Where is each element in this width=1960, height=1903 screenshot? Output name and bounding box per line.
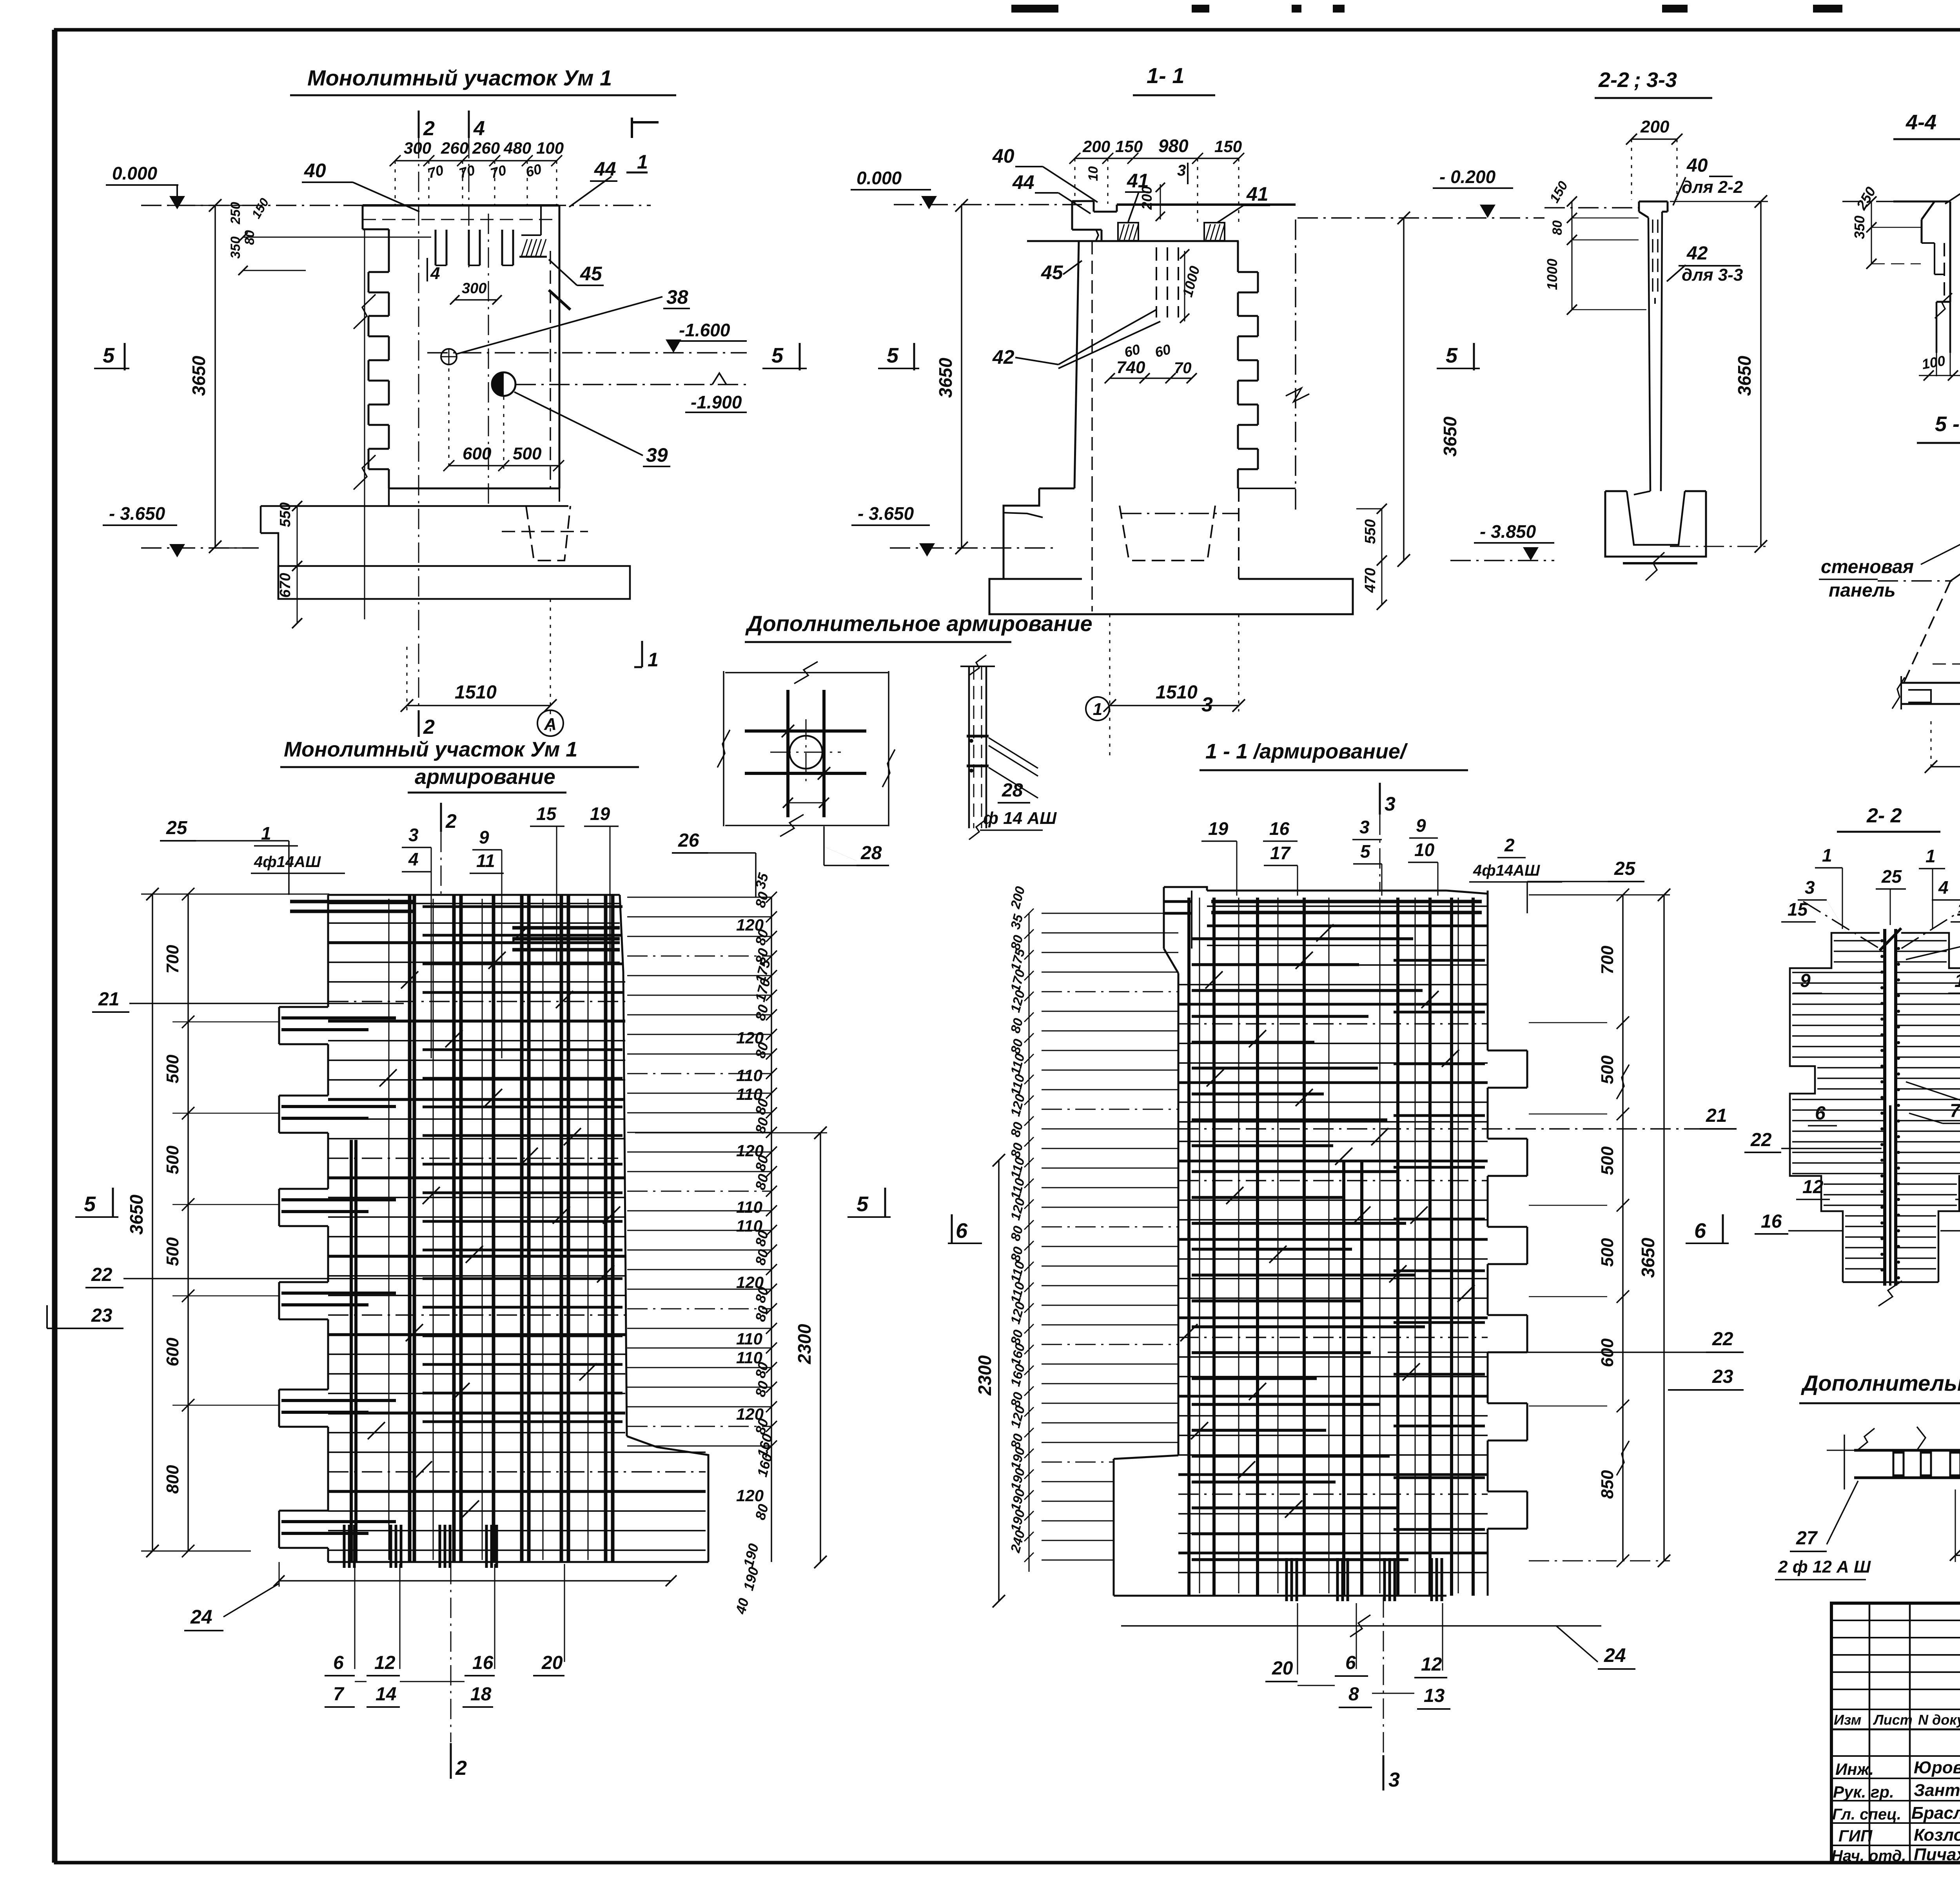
svg-text:80: 80 [1550, 220, 1565, 235]
svg-text:Гл. спец.: Гл. спец. [1832, 1806, 1901, 1823]
svg-text:12: 12 [1802, 1177, 1824, 1197]
svg-text:40: 40 [992, 145, 1014, 167]
svg-text:42: 42 [1686, 243, 1708, 264]
svg-text:3: 3 [1805, 877, 1815, 898]
svg-text:15: 15 [1957, 899, 1960, 920]
svg-text:13: 13 [1424, 1685, 1445, 1706]
svg-text:1: 1 [1926, 846, 1936, 866]
svg-text:2- 2: 2- 2 [1866, 804, 1902, 827]
svg-text:Зантверг: Зантверг [1914, 1781, 1960, 1800]
svg-text:26: 26 [678, 830, 699, 851]
svg-text:для 2-2: для 2-2 [1682, 178, 1743, 197]
svg-text:Инж.: Инж. [1835, 1760, 1874, 1778]
svg-text:1510: 1510 [455, 682, 497, 703]
svg-text:11: 11 [476, 851, 495, 871]
svg-text:Пичахчи: Пичахчи [1914, 1845, 1960, 1864]
svg-text:500: 500 [163, 1237, 182, 1266]
svg-text:550: 550 [1362, 519, 1379, 544]
svg-text:3650: 3650 [126, 1194, 147, 1235]
svg-text:150: 150 [1214, 137, 1242, 156]
svg-text:1: 1 [261, 823, 271, 844]
svg-text:3650: 3650 [935, 357, 956, 398]
svg-text:9: 9 [479, 827, 489, 847]
svg-text:16: 16 [1761, 1211, 1782, 1232]
svg-text:1- 1: 1- 1 [1147, 63, 1185, 88]
svg-text:А: А [544, 715, 557, 734]
svg-text:6: 6 [333, 1653, 344, 1673]
svg-text:4: 4 [430, 264, 440, 283]
svg-text:5: 5 [1360, 841, 1371, 862]
svg-text:ф 14 АШ: ф 14 АШ [983, 809, 1057, 828]
svg-text:4: 4 [408, 849, 419, 869]
svg-text:600: 600 [463, 444, 492, 463]
svg-text:для 3-3: для 3-3 [1682, 265, 1743, 285]
svg-text:24: 24 [1604, 1644, 1626, 1666]
svg-text:0.000: 0.000 [857, 168, 902, 188]
svg-text:23: 23 [1712, 1366, 1733, 1387]
svg-text:740: 740 [1116, 358, 1145, 377]
svg-text:2-2: 2-2 [1598, 68, 1629, 92]
svg-text:3: 3 [1177, 162, 1186, 179]
svg-text:5 - 5: 5 - 5 [1935, 412, 1960, 436]
svg-text:38: 38 [666, 286, 688, 308]
svg-text:980: 980 [1158, 136, 1189, 156]
svg-text:4-4: 4-4 [1906, 111, 1936, 134]
svg-text:14: 14 [376, 1684, 396, 1705]
svg-text:850: 850 [1598, 1470, 1617, 1499]
svg-text:Дополнительное армирование: Дополнительное армирование [1801, 1371, 1960, 1395]
svg-text:7: 7 [333, 1684, 345, 1705]
svg-text:3650: 3650 [1440, 416, 1460, 457]
svg-text:500: 500 [163, 1145, 182, 1174]
svg-text:150: 150 [1115, 137, 1143, 156]
svg-text:16: 16 [472, 1653, 494, 1673]
svg-text:3: 3 [1201, 693, 1213, 716]
svg-text:;: ; [1634, 68, 1641, 92]
svg-text:2300: 2300 [975, 1355, 995, 1396]
svg-text:5: 5 [84, 1192, 96, 1216]
svg-text:27: 27 [1796, 1528, 1818, 1549]
svg-text:500: 500 [1598, 1238, 1617, 1267]
svg-text:1: 1 [648, 649, 659, 671]
svg-text:2: 2 [423, 716, 435, 738]
svg-text:-1.900: -1.900 [691, 392, 742, 412]
svg-text:300: 300 [404, 139, 431, 157]
svg-text:110: 110 [736, 1330, 762, 1348]
svg-text:110: 110 [736, 1198, 762, 1216]
svg-text:- 3.650: - 3.650 [109, 503, 165, 524]
svg-text:260: 260 [441, 139, 468, 157]
svg-text:110: 110 [736, 1066, 762, 1085]
svg-text:Дополнительное армирование: Дополнительное армирование [745, 611, 1093, 636]
svg-text:Рук. гр.: Рук. гр. [1833, 1783, 1894, 1801]
svg-text:1: 1 [1822, 845, 1832, 865]
svg-text:18: 18 [470, 1684, 492, 1705]
svg-text:2: 2 [423, 117, 435, 140]
svg-text:5: 5 [857, 1192, 869, 1216]
svg-text:70: 70 [1174, 359, 1192, 377]
svg-text:670: 670 [277, 573, 294, 598]
svg-text:Лист: Лист [1873, 1712, 1913, 1728]
svg-text:-1.600: -1.600 [679, 320, 730, 340]
svg-text:4ф14АШ: 4ф14АШ [254, 853, 321, 871]
svg-text:500: 500 [1598, 1146, 1617, 1175]
svg-text:480: 480 [503, 139, 531, 157]
svg-text:1: 1 [637, 151, 648, 173]
svg-text:9: 9 [1800, 971, 1811, 991]
svg-text:24: 24 [190, 1606, 212, 1628]
svg-text:4ф14АШ: 4ф14АШ [1473, 862, 1540, 879]
svg-text:5: 5 [103, 344, 115, 367]
svg-text:15: 15 [536, 804, 557, 824]
svg-text:3650: 3650 [1638, 1237, 1658, 1278]
svg-text:2: 2 [455, 1757, 467, 1780]
svg-text:10: 10 [1414, 840, 1435, 860]
svg-text:12: 12 [1421, 1654, 1442, 1675]
svg-text:6: 6 [1345, 1653, 1356, 1673]
svg-text:Изм: Изм [1834, 1712, 1861, 1728]
svg-text:4: 4 [473, 117, 485, 140]
svg-text:9: 9 [1416, 815, 1426, 836]
svg-text:28: 28 [1002, 780, 1023, 801]
svg-text:44: 44 [594, 158, 616, 180]
svg-text:3: 3 [408, 825, 419, 845]
svg-text:350: 350 [1851, 216, 1867, 239]
svg-text:Браславский: Браславский [1911, 1803, 1960, 1823]
svg-text:стеновая: стеновая [1821, 557, 1914, 577]
svg-text:5: 5 [771, 344, 784, 367]
svg-text:1000: 1000 [1544, 259, 1560, 290]
svg-text:20: 20 [1272, 1658, 1293, 1679]
svg-text:28: 28 [860, 843, 882, 864]
svg-text:12: 12 [374, 1653, 396, 1673]
svg-text:300: 300 [462, 280, 486, 297]
svg-text:3: 3 [1359, 817, 1370, 837]
svg-text:8: 8 [1348, 1684, 1359, 1705]
svg-text:22: 22 [1712, 1329, 1733, 1350]
svg-text:- 0.200: - 0.200 [1439, 167, 1496, 187]
svg-text:25: 25 [1881, 866, 1902, 887]
svg-text:6: 6 [956, 1219, 968, 1243]
svg-text:Нач. отд.: Нач. отд. [1831, 1847, 1906, 1865]
svg-text:25: 25 [166, 818, 188, 838]
svg-text:1 - 1 /армирование/: 1 - 1 /армирование/ [1205, 740, 1408, 763]
svg-text:23: 23 [91, 1305, 113, 1326]
svg-text:N документа: N документа [1918, 1712, 1960, 1728]
svg-text:45: 45 [580, 263, 603, 285]
svg-text:- 3.650: - 3.650 [858, 503, 914, 524]
svg-text:800: 800 [163, 1465, 182, 1494]
svg-text:11: 11 [1955, 971, 1960, 991]
svg-text:42: 42 [992, 346, 1014, 368]
svg-text:40: 40 [304, 160, 326, 181]
svg-text:5: 5 [1446, 344, 1458, 367]
svg-text:200: 200 [1082, 137, 1110, 156]
svg-text:армирование: армирование [415, 765, 555, 789]
svg-text:16: 16 [1269, 818, 1290, 839]
svg-text:500: 500 [513, 444, 542, 463]
svg-text:100: 100 [536, 139, 564, 157]
svg-text:4: 4 [1938, 877, 1949, 898]
svg-text:41: 41 [1246, 183, 1269, 205]
svg-text:0.000: 0.000 [112, 163, 158, 183]
svg-text:20: 20 [541, 1653, 563, 1673]
svg-text:500: 500 [1598, 1055, 1617, 1084]
svg-text:260: 260 [472, 139, 500, 157]
svg-text:600: 600 [163, 1337, 182, 1366]
svg-text:2: 2 [445, 810, 457, 832]
svg-text:6: 6 [1694, 1219, 1706, 1243]
svg-text:120: 120 [736, 1486, 764, 1505]
svg-text:панель: панель [1829, 580, 1896, 601]
svg-text:2300: 2300 [794, 1324, 815, 1364]
svg-text:550: 550 [277, 503, 294, 527]
svg-text:3: 3 [1385, 793, 1396, 815]
svg-text:500: 500 [163, 1054, 182, 1083]
svg-text:3: 3 [1388, 1769, 1400, 1791]
svg-text:1510: 1510 [1156, 682, 1198, 703]
svg-text:44: 44 [1012, 171, 1034, 193]
svg-text:5: 5 [887, 344, 899, 367]
svg-text:15: 15 [1788, 899, 1808, 920]
svg-text:3-3: 3-3 [1646, 68, 1677, 92]
svg-text:19: 19 [590, 804, 610, 824]
svg-text:700: 700 [1598, 945, 1617, 974]
svg-text:Монолитный участок Ум 1: Монолитный участок Ум 1 [284, 738, 577, 761]
svg-text:39: 39 [646, 444, 668, 466]
svg-text:470: 470 [1362, 568, 1379, 593]
svg-text:21: 21 [1706, 1105, 1727, 1126]
svg-text:7: 7 [1950, 1101, 1960, 1121]
svg-text:2: 2 [1504, 835, 1515, 855]
svg-text:6: 6 [1815, 1103, 1826, 1124]
svg-text:45: 45 [1041, 261, 1063, 283]
svg-text:3650: 3650 [1734, 356, 1755, 396]
svg-text:Юровский: Юровский [1914, 1758, 1960, 1777]
svg-text:200: 200 [1640, 117, 1670, 136]
svg-text:Монолитный участок Ум 1: Монолитный участок Ум 1 [307, 65, 612, 90]
svg-text:22: 22 [91, 1264, 113, 1285]
svg-text:250: 250 [228, 202, 243, 225]
svg-text:Козловская: Козловская [1914, 1825, 1960, 1845]
svg-text:- 3.850: - 3.850 [1480, 521, 1536, 542]
svg-text:40: 40 [1686, 155, 1708, 176]
svg-text:2 ф 12 А Ш: 2 ф 12 А Ш [1778, 1557, 1871, 1576]
svg-text:17: 17 [1270, 843, 1291, 863]
svg-text:21: 21 [98, 989, 119, 1010]
svg-text:1: 1 [1093, 700, 1102, 719]
svg-text:19: 19 [1208, 818, 1229, 839]
svg-text:200: 200 [1139, 186, 1155, 210]
svg-text:3650: 3650 [189, 356, 209, 396]
svg-text:10: 10 [1086, 166, 1101, 181]
svg-text:ГИП: ГИП [1838, 1827, 1873, 1845]
svg-text:700: 700 [163, 945, 182, 974]
svg-text:22: 22 [1750, 1130, 1772, 1150]
svg-text:25: 25 [1614, 858, 1636, 879]
